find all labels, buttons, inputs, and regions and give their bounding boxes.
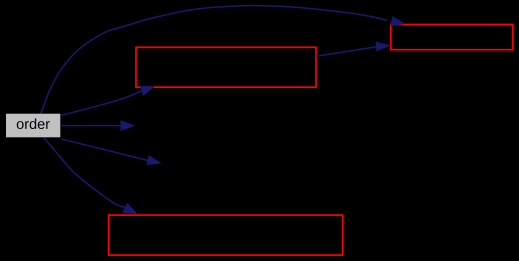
arrowhead at top-right node (390, 16, 405, 26)
edge: order -> top-right node (long curve over the top) (41, 6, 406, 114)
arrowhead at bottom node (122, 203, 138, 215)
edge: order -> hidden node (horizontal) (61, 120, 136, 131)
node: top right (red, truncated) (391, 25, 513, 50)
arrowhead at middle node (140, 86, 155, 96)
node: bottom (red, truncated) (109, 215, 343, 255)
arrowhead (down-right edge) (147, 155, 162, 165)
arrowhead at top-right node (from middle) (376, 42, 392, 52)
edge: order -> bottom node (curve down) (44, 138, 138, 215)
arrowhead (horizontal edge) (121, 120, 136, 131)
edge: middle node -> top-right node (316, 42, 391, 57)
node: order (current node, grey fill) (6, 114, 60, 138)
node: middle (red, truncated) (136, 47, 316, 87)
edge: order -> middle node (61, 86, 155, 116)
edge: order -> hidden node (down-right) (61, 139, 162, 165)
